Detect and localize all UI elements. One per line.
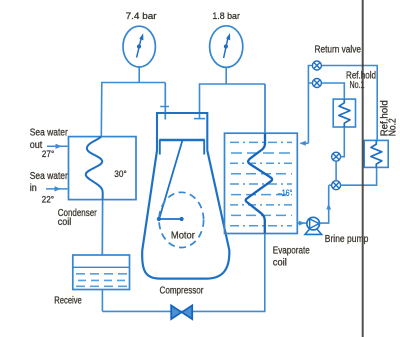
label Condenser coil bbox=[58, 208, 98, 228]
sea water out arrow bbox=[47, 144, 68, 149]
svg-text:No.2: No.2 bbox=[387, 118, 398, 136]
motor dashed circle bbox=[159, 192, 204, 247]
label Sea water out 27 bbox=[30, 128, 69, 161]
svg-text:coil: coil bbox=[58, 217, 72, 228]
label Ref.hold No.1 bbox=[346, 71, 376, 92]
wire valve V4 to ref hold No.2 bottom bbox=[341, 167, 377, 185]
wire bottom liquid line to evaporator bbox=[102, 234, 264, 312]
label Ref.hold No.2 (rotated) bbox=[380, 100, 399, 136]
wire suction line down into evaporator bbox=[264, 84, 266, 134]
receiver box bbox=[73, 255, 130, 290]
pressure gauge G2 1.8 bar bbox=[210, 26, 243, 68]
wire suction header (evaporator to compressor, 1.8 bar line) bbox=[200, 84, 266, 119]
evaporator brine level dash-dot rows bbox=[230, 142, 292, 225]
label Sea water in 22 bbox=[30, 171, 69, 205]
wire ref hold No.1 bottom to valve V3 bbox=[341, 127, 345, 157]
condenser coil bbox=[86, 137, 103, 200]
ref hold No.2 coil bbox=[371, 140, 382, 167]
wire compressor discharge riser bbox=[164, 83, 166, 120]
svg-text:22°: 22° bbox=[42, 195, 55, 206]
ref hold No.2 box bbox=[364, 140, 388, 167]
sea water in arrow bbox=[46, 186, 68, 191]
wire pump discharge riser with up arrow bbox=[320, 185, 332, 223]
ref hold No.1 coil bbox=[339, 99, 350, 127]
suction pipe T-bar inside neck bbox=[194, 118, 205, 120]
wire receiver outlet down bbox=[101, 290, 103, 312]
valve V4 (circle-X) bbox=[332, 181, 341, 190]
wire discharge header (compressor to condenser, 7.4 bar line) bbox=[101, 83, 165, 137]
evaporator coil bbox=[246, 133, 272, 233]
compressor piston line bbox=[159, 139, 205, 141]
svg-text:30°: 30° bbox=[114, 169, 127, 180]
svg-text:in: in bbox=[30, 183, 37, 194]
motor shaft with end dots bbox=[157, 217, 184, 221]
wire riser to valve V4 bbox=[329, 184, 332, 186]
svg-text:Motor: Motor bbox=[171, 231, 196, 242]
condenser box bbox=[69, 137, 137, 200]
flange tick on discharge riser bbox=[160, 106, 169, 108]
wire gauge G2 stem bbox=[225, 67, 227, 84]
piston side hooks bbox=[160, 140, 204, 155]
wire between valves V3 and V4 bbox=[335, 161, 337, 181]
compressor body (flask) bbox=[142, 151, 229, 279]
svg-text:out: out bbox=[30, 140, 43, 151]
evaporator box bbox=[225, 133, 298, 233]
svg-text:Sea water: Sea water bbox=[30, 128, 69, 139]
receiver liquid dashes bbox=[76, 274, 127, 287]
pressure gauge G1 7.4 bar bbox=[123, 26, 155, 67]
wire condenser to receiver bbox=[101, 200, 103, 255]
valve V3 (circle-X) bbox=[332, 152, 341, 161]
svg-text:27°: 27° bbox=[42, 149, 55, 160]
svg-text:Sea water: Sea water bbox=[30, 171, 69, 182]
svg-text:Compressor: Compressor bbox=[160, 285, 205, 296]
connecting rod bbox=[159, 141, 182, 219]
svg-text:Evaporate: Evaporate bbox=[273, 246, 310, 257]
valve V2 (circle-X) bbox=[312, 79, 321, 88]
brine pump P1 bbox=[305, 217, 322, 234]
svg-text:coil: coil bbox=[273, 257, 287, 268]
svg-text:Return valve: Return valve bbox=[315, 44, 362, 55]
valve V1 return valve (circle-X) bbox=[312, 61, 321, 70]
svg-text:1.8 bar: 1.8 bar bbox=[212, 11, 240, 22]
svg-text:7.4 bar: 7.4 bar bbox=[126, 11, 157, 22]
wire return header with valve V1 bbox=[308, 66, 377, 144]
expansion valve (bowtie) bbox=[171, 305, 192, 319]
ref hold No.1 box bbox=[333, 99, 355, 127]
wire valve V2 branch to ref hold No.1 top bbox=[308, 83, 344, 99]
label Evaporate coil bbox=[273, 246, 310, 269]
compressor neck bbox=[157, 113, 207, 151]
wire return into evaporator with arrow bbox=[300, 141, 309, 146]
wire gauge G1 stem bbox=[138, 67, 140, 83]
wire evaporator outlet to brine pump with arrow bbox=[297, 221, 307, 226]
svg-text:Receive: Receive bbox=[54, 295, 82, 306]
svg-text:–16°: –16° bbox=[278, 188, 293, 199]
dark page rule bbox=[362, 0, 364, 337]
